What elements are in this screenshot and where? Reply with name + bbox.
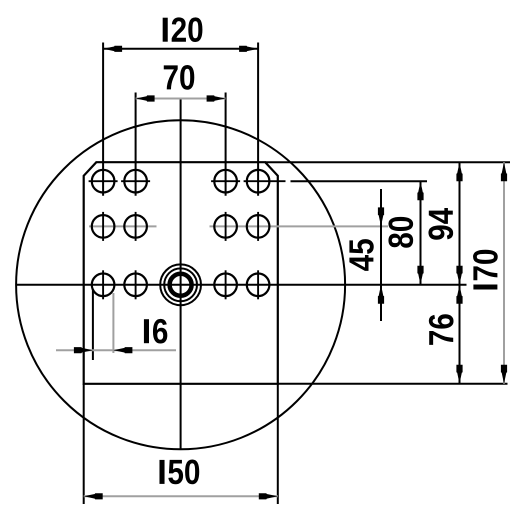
arrow 150 right	[259, 493, 278, 499]
bearing inner ring thick	[170, 274, 192, 296]
arrow 150 left	[84, 493, 103, 499]
hole r3c2	[124, 274, 147, 297]
extension line plate top right	[265, 161, 510, 163]
arrow 70 left	[136, 95, 155, 101]
horizontal centerline row3 (main axis)	[16, 284, 466, 286]
hole r2c3	[214, 215, 237, 238]
centerline row2 gray right segment	[210, 225, 389, 227]
arrow 45 top (points down to row2)	[378, 207, 384, 226]
hole r1c2	[124, 170, 147, 193]
dim line 94	[459, 162, 461, 285]
extension line plate left below (150)	[83, 384, 85, 504]
label 45	[349, 239, 373, 271]
hole r1c1	[92, 170, 115, 193]
arrow 170 top	[501, 162, 507, 181]
dim 16 extension left (black)	[92, 289, 94, 360]
outer circle (round plate outline)	[16, 120, 345, 449]
label 70	[164, 65, 195, 90]
arrow 170 bottom	[501, 365, 507, 384]
extension line row1 right	[291, 180, 428, 182]
plate outline with chamfered top corners	[84, 162, 278, 384]
bearing outer circle	[160, 264, 201, 305]
dim line 120	[103, 48, 258, 50]
bearing middle circle	[164, 268, 197, 301]
extension line col4 to 120 dim	[257, 43, 259, 196]
hole r3c1	[92, 274, 115, 297]
extension line plate bottom right	[278, 383, 508, 385]
cross tick r2c4 vertical	[257, 212, 259, 241]
arrow 94 bottom	[456, 266, 462, 285]
dim line 80	[420, 181, 422, 285]
hole r1c4	[247, 170, 270, 193]
hole r3c4	[247, 274, 270, 297]
arrow 16 left (points right)	[74, 347, 93, 353]
arrow 120 left	[103, 46, 122, 52]
arrow 120 right	[239, 46, 258, 52]
cross tick r3c1 vertical	[102, 270, 104, 299]
label 150	[159, 460, 199, 485]
arrow 80 bottom	[417, 266, 423, 285]
arrow 80 top	[417, 181, 423, 200]
cross tick r1c3 horizontal	[211, 180, 240, 182]
label 170	[473, 250, 498, 290]
cross tick r3c4 vertical	[257, 270, 259, 299]
arrow 45 bottom (points up to row3)	[378, 285, 384, 304]
dim line 76	[459, 285, 461, 384]
hole r1c3	[214, 170, 237, 193]
cross tick r2c1 vertical	[102, 212, 104, 241]
extension line col3 to 70 dim	[225, 93, 227, 196]
dim line 16 (gray)	[56, 349, 176, 351]
vertical centerline (main axis)	[180, 99, 182, 450]
label 80	[388, 217, 413, 248]
dim line 70 (gray)	[136, 98, 226, 100]
arrow 94 top	[456, 162, 462, 181]
arrow 70 right	[207, 95, 226, 101]
label 94	[428, 208, 453, 240]
label 16	[144, 319, 167, 344]
cross tick r3c2 vertical	[135, 270, 137, 299]
label 120	[163, 17, 203, 42]
extension line col2 to 70 dim	[135, 93, 137, 196]
cross tick r1c2 horizontal	[121, 180, 150, 182]
cross tick r3c3 vertical	[225, 270, 227, 299]
hole r2c2	[124, 215, 147, 238]
dim line 45	[380, 189, 382, 321]
arrow 16 right (points left)	[113, 347, 132, 353]
arrow 76 top	[456, 285, 462, 304]
hole r2c4	[247, 215, 270, 238]
extension line col1 to 120 dim	[102, 43, 104, 196]
cross tick r2c3 vertical	[225, 212, 227, 241]
extension line plate right below (150)	[277, 384, 279, 504]
arrow 76 bottom	[456, 365, 462, 384]
dim line 170 (gray)	[503, 162, 505, 384]
cross tick r1c1 horizontal	[89, 180, 118, 182]
label 76	[429, 314, 454, 345]
hole r2c1	[92, 215, 115, 238]
cross tick r1c4 horizontal (extended)	[244, 180, 286, 182]
centerline row2 gray left segment	[89, 225, 157, 227]
cross tick r2c2 vertical	[135, 212, 137, 241]
hole r3c3	[214, 274, 237, 297]
dim line 150 (gray)	[84, 495, 278, 497]
dim 16 extension right (gray)	[112, 293, 114, 353]
